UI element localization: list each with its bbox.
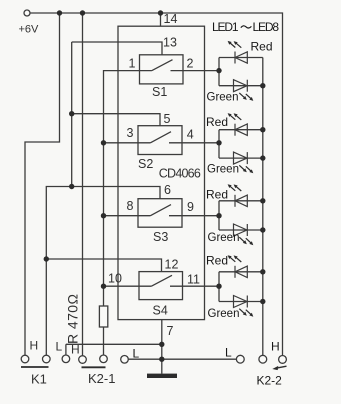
svg-text:Red: Red [206,254,228,268]
svg-text:K2-2: K2-2 [257,374,283,388]
svg-text:14: 14 [164,12,178,26]
terminal K2-2 H [279,356,287,364]
wire pin6 control [72,187,160,199]
svg-text:CD4066: CD4066 [159,167,201,181]
wire control to K1-L [46,187,71,356]
svg-text:R 470Ω: R 470Ω [65,294,81,344]
wire pin3 [104,142,139,144]
connector K2-1 underline [82,366,106,368]
svg-text:12: 12 [165,258,179,272]
switch S4 box [139,272,183,300]
LED green 4 [234,152,248,164]
svg-text:10: 10 [108,272,122,286]
terminal +6V [24,10,30,16]
svg-text:S1: S1 [152,85,167,99]
svg-text:+6V: +6V [19,24,40,36]
svg-text:L: L [133,347,140,361]
wire pin11 to LED rail [183,285,220,287]
IC U1 CD4066 outline [118,26,205,319]
switch S2 box [138,126,182,155]
wire pin8 [104,215,139,217]
terminal K2-1 gnd [62,355,70,363]
wire pin9 to LED rail [182,215,219,217]
wire pin14 stub [160,13,162,26]
wire control rail [71,42,73,187]
wire LED pair4 loop [219,272,263,302]
wire input rail and pin1 [104,71,140,306]
wire bottom to L terminals [128,358,236,360]
svg-text:L: L [56,340,63,354]
wire pin13 control [72,42,162,55]
wire LED pair3 loop [219,201,263,230]
svg-text:13: 13 [163,36,177,50]
svg-text:Green: Green [207,92,239,104]
terminal K2-1 H [79,356,87,364]
svg-text:2: 2 [187,57,194,71]
svg-text:Green: Green [208,308,240,320]
svg-text:8: 8 [127,199,134,213]
LED green 2 [234,80,248,92]
wire pin12 control [46,259,161,272]
svg-text:1: 1 [129,57,136,71]
wire LED pair1 loop [219,58,263,86]
svg-text:5: 5 [164,112,171,126]
terminal K2-2 mid [259,355,267,363]
wire pin5 control [72,114,160,126]
svg-text:K1: K1 [31,372,47,387]
LED red 7 [235,266,247,278]
svg-text:3: 3 [127,126,134,140]
wire GND bottom horizontal to K2-1 L [66,344,162,355]
terminal L left [121,356,129,364]
wire pin7 to ground [161,320,163,374]
connector K2-2 arrow [276,366,287,368]
wire rail to K1-H (jog) [25,13,60,355]
svg-text:S4: S4 [153,304,168,318]
terminal K1 H [21,355,29,363]
svg-text:4: 4 [187,128,194,142]
svg-text:11: 11 [187,273,200,287]
svg-text:H: H [71,343,80,357]
wire pin10 [104,285,140,287]
svg-text:Green: Green [208,232,240,244]
LED red 5 [235,195,247,207]
terminal K1 L [43,355,51,363]
resistor R 470ohm [99,306,107,327]
switch S3 box [138,199,182,228]
switch S1 box [140,55,184,84]
svg-text:Red: Red [206,188,228,202]
svg-text:S2: S2 [138,157,153,171]
svg-text:L: L [225,346,232,360]
wire +6V top rail [31,13,283,356]
LED green 6 [234,224,248,236]
svg-text:Green: Green [207,164,239,176]
wire pin2 to LED rail [183,70,219,72]
svg-text:LED8: LED8 [253,20,280,34]
LED green 8 [234,296,248,308]
LED red 3 [235,124,247,136]
svg-text:S3: S3 [153,230,168,244]
terminal K2-1 signal [100,355,108,363]
svg-text:LED1: LED1 [212,20,239,34]
ground [147,374,177,378]
terminal K2-2 L [236,355,244,363]
connector K1 underline [21,366,49,368]
wire LED common rail [262,58,264,356]
svg-text:H: H [271,340,280,354]
wire resistor lower lead [103,327,105,355]
svg-text:Red: Red [251,40,273,54]
LED red 1 [235,52,247,64]
svg-text:9: 9 [187,200,194,214]
svg-text:6: 6 [164,183,171,197]
svg-text:Red: Red [206,115,228,129]
svg-text:H: H [30,339,39,353]
wire pin4 to LED rail [182,142,219,144]
wire LED pair2 loop [219,130,263,158]
svg-text:K2-1: K2-1 [88,371,115,386]
svg-text:7: 7 [167,324,174,338]
wire +6V drop rail to K2-1 H [82,13,84,356]
